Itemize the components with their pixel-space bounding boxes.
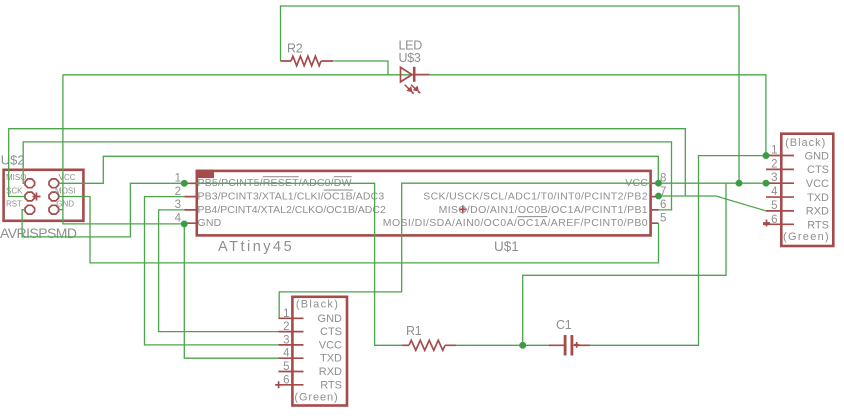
svg-text:CTS: CTS [807, 164, 829, 176]
svg-text:ATtiny45: ATtiny45 [218, 239, 294, 255]
svg-text:RTS: RTS [320, 379, 342, 391]
svg-text:VCC: VCC [806, 178, 829, 190]
svg-text:U$1: U$1 [494, 239, 519, 254]
svg-text:CTS: CTS [320, 326, 342, 338]
svg-text:GND: GND [56, 200, 74, 209]
svg-text:TXD: TXD [320, 353, 342, 365]
svg-text:5: 5 [660, 212, 666, 224]
svg-text:GND: GND [805, 150, 830, 162]
svg-text:PB3/PCINT3/XTAL1/CLKI/OC1B/ADC: PB3/PCINT3/XTAL1/CLKI/OC1B/ADC3 [198, 191, 385, 203]
svg-text:VCC: VCC [319, 339, 342, 351]
svg-text:R1: R1 [406, 324, 422, 338]
svg-text:MOSI: MOSI [55, 186, 75, 195]
svg-text:MISO/DO/AIN1/OC0B/OC1A/PCINT1/: MISO/DO/AIN1/OC0B/OC1A/PCINT1/PB1 [439, 204, 648, 216]
svg-text:RXD: RXD [806, 206, 829, 218]
svg-text:(Green): (Green) [294, 392, 338, 404]
svg-text:(Black): (Black) [785, 137, 826, 149]
svg-text:AVRISPSMD: AVRISPSMD [0, 225, 77, 241]
svg-text:4: 4 [175, 212, 182, 224]
svg-text:RXD: RXD [319, 366, 342, 378]
svg-text:(Green): (Green) [783, 231, 830, 243]
svg-text:(Black): (Black) [296, 299, 339, 311]
svg-text:GND: GND [318, 313, 343, 325]
svg-text:U$2: U$2 [1, 153, 25, 168]
svg-text:SCK/USCK/SCL/ADC1/T0/INT0/PCIN: SCK/USCK/SCL/ADC1/T0/INT0/PCINT2/PB2 [423, 191, 648, 203]
svg-text:RST: RST [6, 200, 22, 209]
svg-text:RTS: RTS [807, 220, 829, 232]
svg-text:R2: R2 [287, 42, 303, 56]
svg-text:C1: C1 [556, 318, 572, 332]
svg-text:TXD: TXD [807, 192, 829, 204]
svg-text:VCC: VCC [59, 173, 76, 182]
svg-text:U$3: U$3 [399, 51, 421, 65]
svg-text:GND: GND [198, 217, 222, 229]
svg-text:MOSI/DI/SDA/AIN0/OC0A/OC1A/ARE: MOSI/DI/SDA/AIN0/OC0A/OC1A/AREF/PCINT0/P… [383, 217, 648, 229]
svg-text:PB4/PCINT4/XTAL2/CLKO/OC1B/ADC: PB4/PCINT4/XTAL2/CLKO/OC1B/ADC2 [198, 204, 386, 216]
